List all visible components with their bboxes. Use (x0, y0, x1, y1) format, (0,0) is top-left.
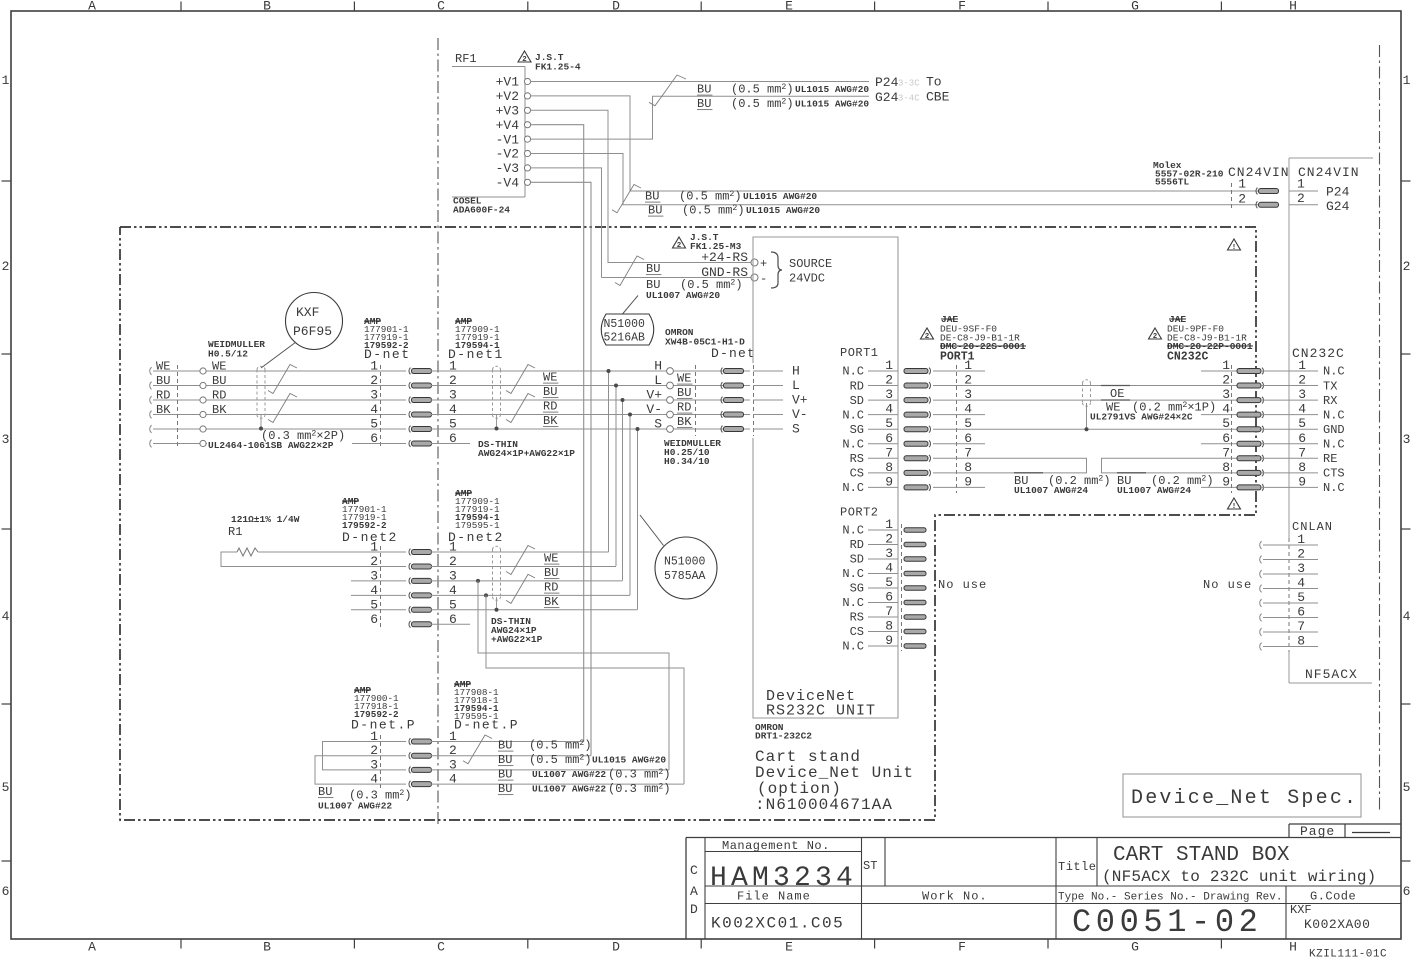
unit pins H L V+ V- S (753, 370, 783, 372)
svg-text:BK: BK (677, 415, 692, 429)
crimps D-net (409, 368, 411, 375)
wire RD-TX (985, 385, 1201, 387)
svg-text:File Name: File Name (737, 890, 811, 904)
svg-text:5: 5 (1298, 416, 1306, 431)
svg-text:H: H (792, 364, 800, 379)
warning triangle bottom (1228, 498, 1241, 509)
svg-text:8: 8 (885, 619, 893, 634)
svg-text:WE: WE (543, 371, 557, 385)
svg-text::N610004671AA: :N610004671AA (755, 796, 893, 814)
svg-text:WE: WE (212, 360, 226, 374)
D-net2 wire4 (431, 594, 630, 596)
svg-text:BU: BU (318, 785, 332, 799)
svg-text:6: 6 (964, 431, 972, 446)
cable-end arcs left terminal (150, 367, 152, 375)
crimp CN24VIN 2 (1256, 201, 1258, 208)
wire P24 (531, 81, 870, 83)
svg-text:FK1.25-4: FK1.25-4 (535, 62, 581, 73)
svg-text:+AWG22×1P: +AWG22×1P (491, 634, 543, 645)
svg-text:7: 7 (1222, 445, 1230, 460)
wire -V4 down long (531, 182, 592, 755)
svg-text:5216AB: 5216AB (604, 332, 646, 345)
svg-text:1: 1 (2, 73, 10, 88)
svg-text:-V2: -V2 (496, 147, 519, 162)
svg-text:6: 6 (370, 612, 378, 627)
svg-text:G24: G24 (875, 90, 899, 105)
svg-text:2: 2 (1297, 547, 1305, 562)
svg-text:K002XA00: K002XA00 (1304, 917, 1370, 932)
Device_Net Spec box (1123, 774, 1361, 817)
svg-text:BU: BU (543, 385, 557, 399)
svg-text:N.C: N.C (842, 481, 864, 495)
twist D-net rows12 (268, 365, 297, 394)
leader KXF (261, 342, 296, 368)
wire -V2 to CN24VIN pin2 (531, 154, 1259, 205)
D-net1 output wires (431, 370, 750, 372)
svg-text:2: 2 (2, 259, 10, 274)
svg-text:2: 2 (522, 56, 527, 64)
svg-text:ST: ST (863, 859, 877, 873)
svg-text:CBE: CBE (926, 90, 950, 105)
svg-text:S: S (654, 417, 662, 432)
svg-text:H0.5/12: H0.5/12 (208, 349, 248, 360)
crimps PORT1 (904, 369, 928, 374)
svg-text:3: 3 (2, 432, 10, 447)
svg-text:RS: RS (850, 611, 864, 625)
svg-text:!: ! (1232, 244, 1237, 252)
svg-text:1: 1 (885, 358, 893, 373)
svg-text:RD: RD (544, 581, 558, 595)
svg-text:5556TL: 5556TL (1155, 177, 1190, 188)
terminal circles (200, 368, 206, 374)
svg-text:1: 1 (885, 517, 893, 532)
svg-text:BU: BU (498, 739, 512, 753)
svg-text:9: 9 (964, 474, 972, 489)
PORT1 outer stubs (933, 370, 985, 372)
svg-text:N.C: N.C (842, 596, 864, 610)
warning triangle J.S.T (518, 51, 531, 62)
wire G24 from -V1 (531, 96, 870, 139)
svg-text:BU: BU (498, 768, 512, 782)
svg-text:N.C: N.C (1323, 408, 1345, 422)
svg-text:B: B (263, 0, 271, 14)
D-net2 wire3 (431, 580, 623, 582)
svg-text:K002XC01.C05: K002XC01.C05 (711, 915, 844, 933)
svg-text:3: 3 (370, 388, 378, 403)
svg-text:6: 6 (1297, 605, 1305, 620)
svg-text:+24-RS: +24-RS (701, 250, 748, 265)
resistor R1 (237, 548, 258, 556)
svg-text:3-3C: 3-3C (898, 79, 920, 89)
svg-text:L: L (654, 373, 662, 388)
dashed line D-net.P (380, 735, 382, 789)
wire row4 to D-net.P4 (486, 595, 684, 784)
svg-text:6: 6 (1298, 431, 1306, 446)
pair bundle UL2791VS (1083, 380, 1091, 383)
svg-text:BU: BU (697, 83, 711, 97)
CN232C outer stubs (1201, 370, 1237, 372)
dashed line left terminal (177, 365, 179, 448)
svg-text:-V4: -V4 (496, 176, 520, 191)
svg-text:D: D (612, 0, 620, 14)
CN232C crimp-to-box stubs (1261, 370, 1289, 372)
svg-text:C: C (437, 940, 445, 955)
svg-text:G.Code: G.Code (1310, 890, 1356, 904)
svg-text:2: 2 (370, 554, 378, 569)
svg-text:UL1015 AWG#20: UL1015 AWG#20 (592, 755, 666, 766)
dashed line PORT1 (956, 365, 958, 493)
warning triangle JST-M3 (673, 237, 686, 248)
svg-text:TX: TX (1323, 379, 1337, 393)
svg-text:5: 5 (1297, 590, 1305, 605)
svg-text:4: 4 (1403, 609, 1411, 624)
svg-text:RE: RE (1323, 452, 1337, 466)
svg-text:KXF: KXF (296, 305, 319, 320)
svg-text:V+: V+ (792, 393, 808, 408)
svg-text:To: To (926, 75, 942, 90)
crimps PORT2 (904, 528, 926, 532)
svg-text:PORT1: PORT1 (840, 346, 879, 360)
dashed line omron right (753, 365, 755, 436)
svg-text:9: 9 (885, 474, 893, 489)
svg-text:N.C: N.C (842, 524, 864, 538)
twist symbol CN24VIN wires (612, 185, 641, 213)
svg-text:DRT1-232C2: DRT1-232C2 (755, 731, 812, 742)
svg-text:24VDC: 24VDC (789, 272, 825, 286)
pair bundle D-net2 (493, 546, 501, 549)
svg-text:2: 2 (885, 532, 893, 547)
svg-text:BK: BK (156, 403, 171, 417)
D-net2 wire5 (431, 609, 638, 611)
pair bundle D-net1 (493, 366, 501, 369)
svg-text:RD: RD (543, 400, 557, 414)
svg-text:CN24VIN: CN24VIN (1298, 165, 1360, 180)
svg-text:9: 9 (1298, 474, 1306, 489)
svg-text:3: 3 (370, 568, 378, 583)
svg-text:V-: V- (646, 402, 662, 417)
svg-text:5: 5 (370, 417, 378, 432)
svg-text:BK: BK (212, 403, 227, 417)
twist D-net2 rows34 (506, 574, 535, 603)
CNLAN pins (1260, 541, 1262, 549)
svg-text:PORT1: PORT1 (940, 351, 975, 364)
dashed line D-net (380, 365, 382, 448)
svg-text:8: 8 (885, 460, 893, 475)
svg-text:1: 1 (1297, 532, 1305, 547)
svg-text:C0051-02: C0051-02 (1072, 904, 1262, 941)
svg-text:4: 4 (370, 402, 378, 417)
svg-text:SOURCE: SOURCE (789, 257, 832, 271)
svg-text:G: G (1131, 0, 1139, 14)
svg-text:7: 7 (964, 445, 972, 460)
svg-text:SG: SG (850, 582, 864, 596)
svg-text:CS: CS (850, 625, 864, 639)
svg-text:N.C: N.C (1323, 481, 1345, 495)
svg-text:3: 3 (1403, 432, 1411, 447)
svg-text:E: E (785, 0, 793, 14)
wire L to D-net2 pin2 (615, 386, 617, 567)
svg-text:G: G (1131, 940, 1139, 955)
svg-text:AWG24×1P+AWG22×1P: AWG24×1P+AWG22×1P (478, 448, 575, 459)
grid ticks and column labels (180, 2, 182, 12)
svg-text:5: 5 (885, 416, 893, 431)
svg-text:+: + (760, 257, 767, 271)
DeviceNet RS232C unit box (753, 237, 898, 718)
svg-text:1: 1 (1298, 358, 1306, 373)
svg-text:A: A (88, 940, 96, 955)
svg-text:H: H (654, 359, 662, 374)
balloon N51000 5216AB (601, 314, 654, 345)
svg-text:UL1015 AWG#20: UL1015 AWG#20 (746, 205, 820, 216)
svg-text:RD: RD (677, 401, 691, 415)
wire S to D-net2 pin5 (637, 429, 639, 610)
svg-text:Page: Page (1300, 824, 1335, 839)
svg-text:RD: RD (850, 538, 864, 552)
svg-text:KZIL111-01C: KZIL111-01C (1309, 949, 1387, 958)
svg-text:UL1015 AWG#20: UL1015 AWG#20 (795, 84, 869, 95)
svg-text:5: 5 (1222, 416, 1230, 431)
svg-text:UL2464-1061SB AWG22×2P: UL2464-1061SB AWG22×2P (208, 440, 334, 451)
svg-text:6: 6 (885, 590, 893, 605)
svg-text:2: 2 (925, 333, 930, 341)
wire GND-RS (602, 277, 752, 279)
svg-text:D-net: D-net (711, 346, 756, 361)
svg-text:BU: BU (498, 753, 512, 767)
svg-text:4: 4 (1297, 576, 1305, 591)
svg-text:!: ! (1232, 503, 1237, 511)
svg-text:UL1007 AWG#24: UL1007 AWG#24 (1014, 485, 1088, 496)
wire H to D-net2 pin1 (608, 371, 610, 552)
svg-text:4: 4 (885, 402, 893, 417)
crimps D-net2 (409, 549, 411, 556)
svg-text:D-net.P: D-net.P (454, 718, 519, 733)
svg-text:N51000: N51000 (664, 556, 706, 569)
svg-text:ADA600F-24: ADA600F-24 (453, 205, 510, 216)
svg-text:2: 2 (1403, 259, 1411, 274)
svg-text:+V2: +V2 (496, 89, 519, 104)
pair bundle D-net (257, 366, 265, 369)
svg-text:3: 3 (964, 387, 972, 402)
svg-text:6: 6 (885, 431, 893, 446)
warning triangle JAE2 (1149, 328, 1162, 339)
Page box (1289, 823, 1401, 825)
svg-text:UL1007 AWG#20: UL1007 AWG#20 (646, 290, 720, 301)
svg-text:L: L (792, 378, 800, 393)
svg-text:D: D (612, 940, 620, 955)
svg-text:CN232C: CN232C (1167, 351, 1209, 364)
svg-text:UL1015 AWG#20: UL1015 AWG#20 (743, 191, 817, 202)
svg-text:UL1015 AWG#20: UL1015 AWG#20 (795, 99, 869, 110)
svg-text:2: 2 (885, 373, 893, 388)
svg-text:WE: WE (156, 360, 170, 374)
svg-text:8: 8 (1222, 460, 1230, 475)
svg-text:7: 7 (1298, 445, 1306, 460)
wire +V3 down (531, 110, 609, 262)
svg-text:H0.34/10: H0.34/10 (664, 456, 710, 467)
svg-text:3: 3 (885, 546, 893, 561)
twist D-net1 rows12 (506, 365, 535, 394)
svg-text:R1: R1 (228, 525, 242, 539)
svg-text:Title: Title (1058, 860, 1097, 874)
svg-text:1: 1 (1238, 177, 1246, 192)
svg-text:UL1007 AWG#22: UL1007 AWG#22 (532, 769, 606, 780)
twist D-net rows34 (268, 394, 297, 423)
svg-text:1: 1 (1403, 73, 1411, 88)
svg-text:UL2791VS AWG#24×2C: UL2791VS AWG#24×2C (1090, 412, 1193, 423)
svg-text:P24: P24 (875, 75, 899, 90)
svg-text:C: C (437, 0, 445, 14)
dash-dot boundary box (120, 227, 1256, 820)
balloon N51000 5785AA (655, 537, 717, 599)
svg-text:3: 3 (1297, 561, 1305, 576)
svg-text:2: 2 (677, 242, 682, 250)
grid row ticks and labels (2, 180, 12, 182)
CN24VIN right pin 1 P24 (1289, 190, 1318, 192)
svg-text:(NF5ACX to 232C unit wiring): (NF5ACX to 232C unit wiring) (1102, 868, 1376, 886)
svg-text:PORT2: PORT2 (840, 506, 879, 520)
svg-text:7: 7 (885, 604, 893, 619)
svg-text:5: 5 (1403, 780, 1411, 795)
svg-text:P6F95: P6F95 (293, 324, 332, 339)
CN24VIN right pin 2 G24 (1289, 204, 1318, 206)
svg-text:RD: RD (850, 379, 864, 393)
svg-text:CTS: CTS (1323, 467, 1345, 481)
loop rows1-3 (323, 742, 407, 770)
svg-text:3: 3 (1298, 387, 1306, 402)
svg-text:C: C (690, 863, 698, 878)
svg-text:SD: SD (850, 553, 864, 567)
wire SG-GND (985, 428, 1201, 430)
svg-text:CART STAND BOX: CART STAND BOX (1113, 844, 1290, 867)
svg-text:UL1007 AWG#24: UL1007 AWG#24 (1117, 485, 1191, 496)
crimp CN24VIN 1 (1256, 188, 1258, 195)
wire +V2 to CN24VIN (531, 96, 1259, 191)
wire +24-RS (608, 191, 751, 263)
svg-text:3: 3 (1222, 387, 1230, 402)
crimps CN232C (1237, 369, 1261, 374)
CN232C pins (1289, 370, 1318, 372)
svg-text:5: 5 (885, 575, 893, 590)
svg-text:6: 6 (1403, 884, 1411, 899)
svg-text:N.C: N.C (1323, 437, 1345, 451)
svg-text:+V4: +V4 (496, 118, 520, 133)
svg-text:UL1007 AWG#22: UL1007 AWG#22 (318, 801, 392, 812)
svg-text:BU: BU (645, 190, 659, 204)
twist D-net.P (463, 735, 492, 764)
svg-text:7: 7 (885, 445, 893, 460)
D-net1 row6 stub (431, 443, 470, 445)
leader N51000 5785AA (640, 515, 664, 546)
brace SOURCE (771, 252, 782, 288)
svg-text:BK: BK (544, 595, 559, 609)
svg-text:1: 1 (370, 540, 378, 555)
crimps D-net.P (409, 738, 411, 745)
svg-text:N.C: N.C (1323, 365, 1345, 379)
svg-text:N51000: N51000 (604, 318, 646, 331)
svg-text:8: 8 (1298, 460, 1306, 475)
svg-text:GND: GND (1323, 423, 1345, 437)
svg-text:N.C: N.C (842, 567, 864, 581)
svg-text:4: 4 (885, 561, 893, 576)
svg-text:N.C: N.C (842, 408, 864, 422)
svg-text:A: A (690, 884, 698, 899)
D-net.P wire3 (431, 769, 669, 771)
wire R1 loop (221, 552, 406, 566)
svg-text:-V1: -V1 (496, 132, 520, 147)
svg-text:-: - (760, 272, 767, 286)
wire V- to D-net2 pin4 (629, 415, 631, 596)
svg-text:WE: WE (677, 372, 691, 386)
svg-text:BU: BU (156, 374, 170, 388)
svg-text:5785AA: 5785AA (664, 570, 706, 583)
svg-text:Work No.: Work No. (922, 890, 988, 904)
D-net2 wire6 stub (431, 623, 470, 625)
NF5ACX box edge (1288, 158, 1290, 538)
svg-text:5: 5 (370, 597, 378, 612)
svg-text:N.C: N.C (842, 365, 864, 379)
svg-text:RD: RD (212, 389, 226, 403)
CNLAN dashed edge (1288, 538, 1290, 652)
dashed line PORT2 (901, 524, 903, 651)
svg-text:2: 2 (964, 373, 972, 388)
svg-text:CS: CS (850, 467, 864, 481)
svg-text:D: D (690, 902, 698, 917)
svg-text:2: 2 (370, 373, 378, 388)
loop rows2-4 (315, 756, 406, 784)
title block lines (686, 837, 1401, 839)
svg-text:UL1007 AWG#22: UL1007 AWG#22 (532, 784, 606, 795)
svg-text:No use: No use (938, 578, 987, 592)
svg-text:NF5ACX: NF5ACX (1305, 667, 1358, 682)
svg-text:-V3: -V3 (496, 161, 519, 176)
svg-text:7: 7 (1297, 619, 1305, 634)
svg-text:4: 4 (2, 609, 10, 624)
D-net.P wire1 (431, 741, 584, 743)
svg-text:+V3: +V3 (496, 104, 519, 119)
svg-text:2: 2 (1298, 373, 1306, 388)
svg-text:RD: RD (156, 389, 170, 403)
svg-text:S: S (792, 422, 800, 437)
svg-text:No use: No use (1203, 578, 1252, 592)
svg-text:5: 5 (964, 416, 972, 431)
wire row3 to D-net.P3 (478, 581, 669, 770)
svg-text:4: 4 (370, 583, 378, 598)
dashed line omron left (695, 365, 697, 436)
wire RE-CTS right (1102, 458, 1202, 473)
svg-text:4: 4 (1222, 402, 1230, 417)
dashed line D-net2 (380, 546, 382, 629)
D-net.P wire4 (431, 783, 684, 785)
wire V+ to D-net2 pin3 (622, 400, 624, 581)
svg-text:P24: P24 (1326, 185, 1350, 200)
svg-text:1: 1 (370, 359, 378, 374)
dashed line CN24VIN (1231, 183, 1233, 210)
svg-text:2: 2 (1153, 333, 1158, 341)
svg-text:BU: BU (646, 262, 660, 276)
svg-text:8: 8 (1297, 634, 1305, 649)
svg-text:A: A (88, 0, 96, 14)
wire row6 into crimp (352, 443, 406, 445)
svg-text:BU: BU (498, 782, 512, 796)
svg-text:2: 2 (1238, 192, 1246, 207)
svg-text:3-4C: 3-4C (898, 93, 920, 103)
warning triangle JAE1 (921, 328, 934, 339)
svg-text:H: H (1289, 940, 1297, 955)
wire SD-RX (985, 399, 1201, 401)
svg-text:F: F (958, 940, 966, 955)
right fold line (1379, 45, 1381, 813)
centre fold line (437, 38, 439, 827)
